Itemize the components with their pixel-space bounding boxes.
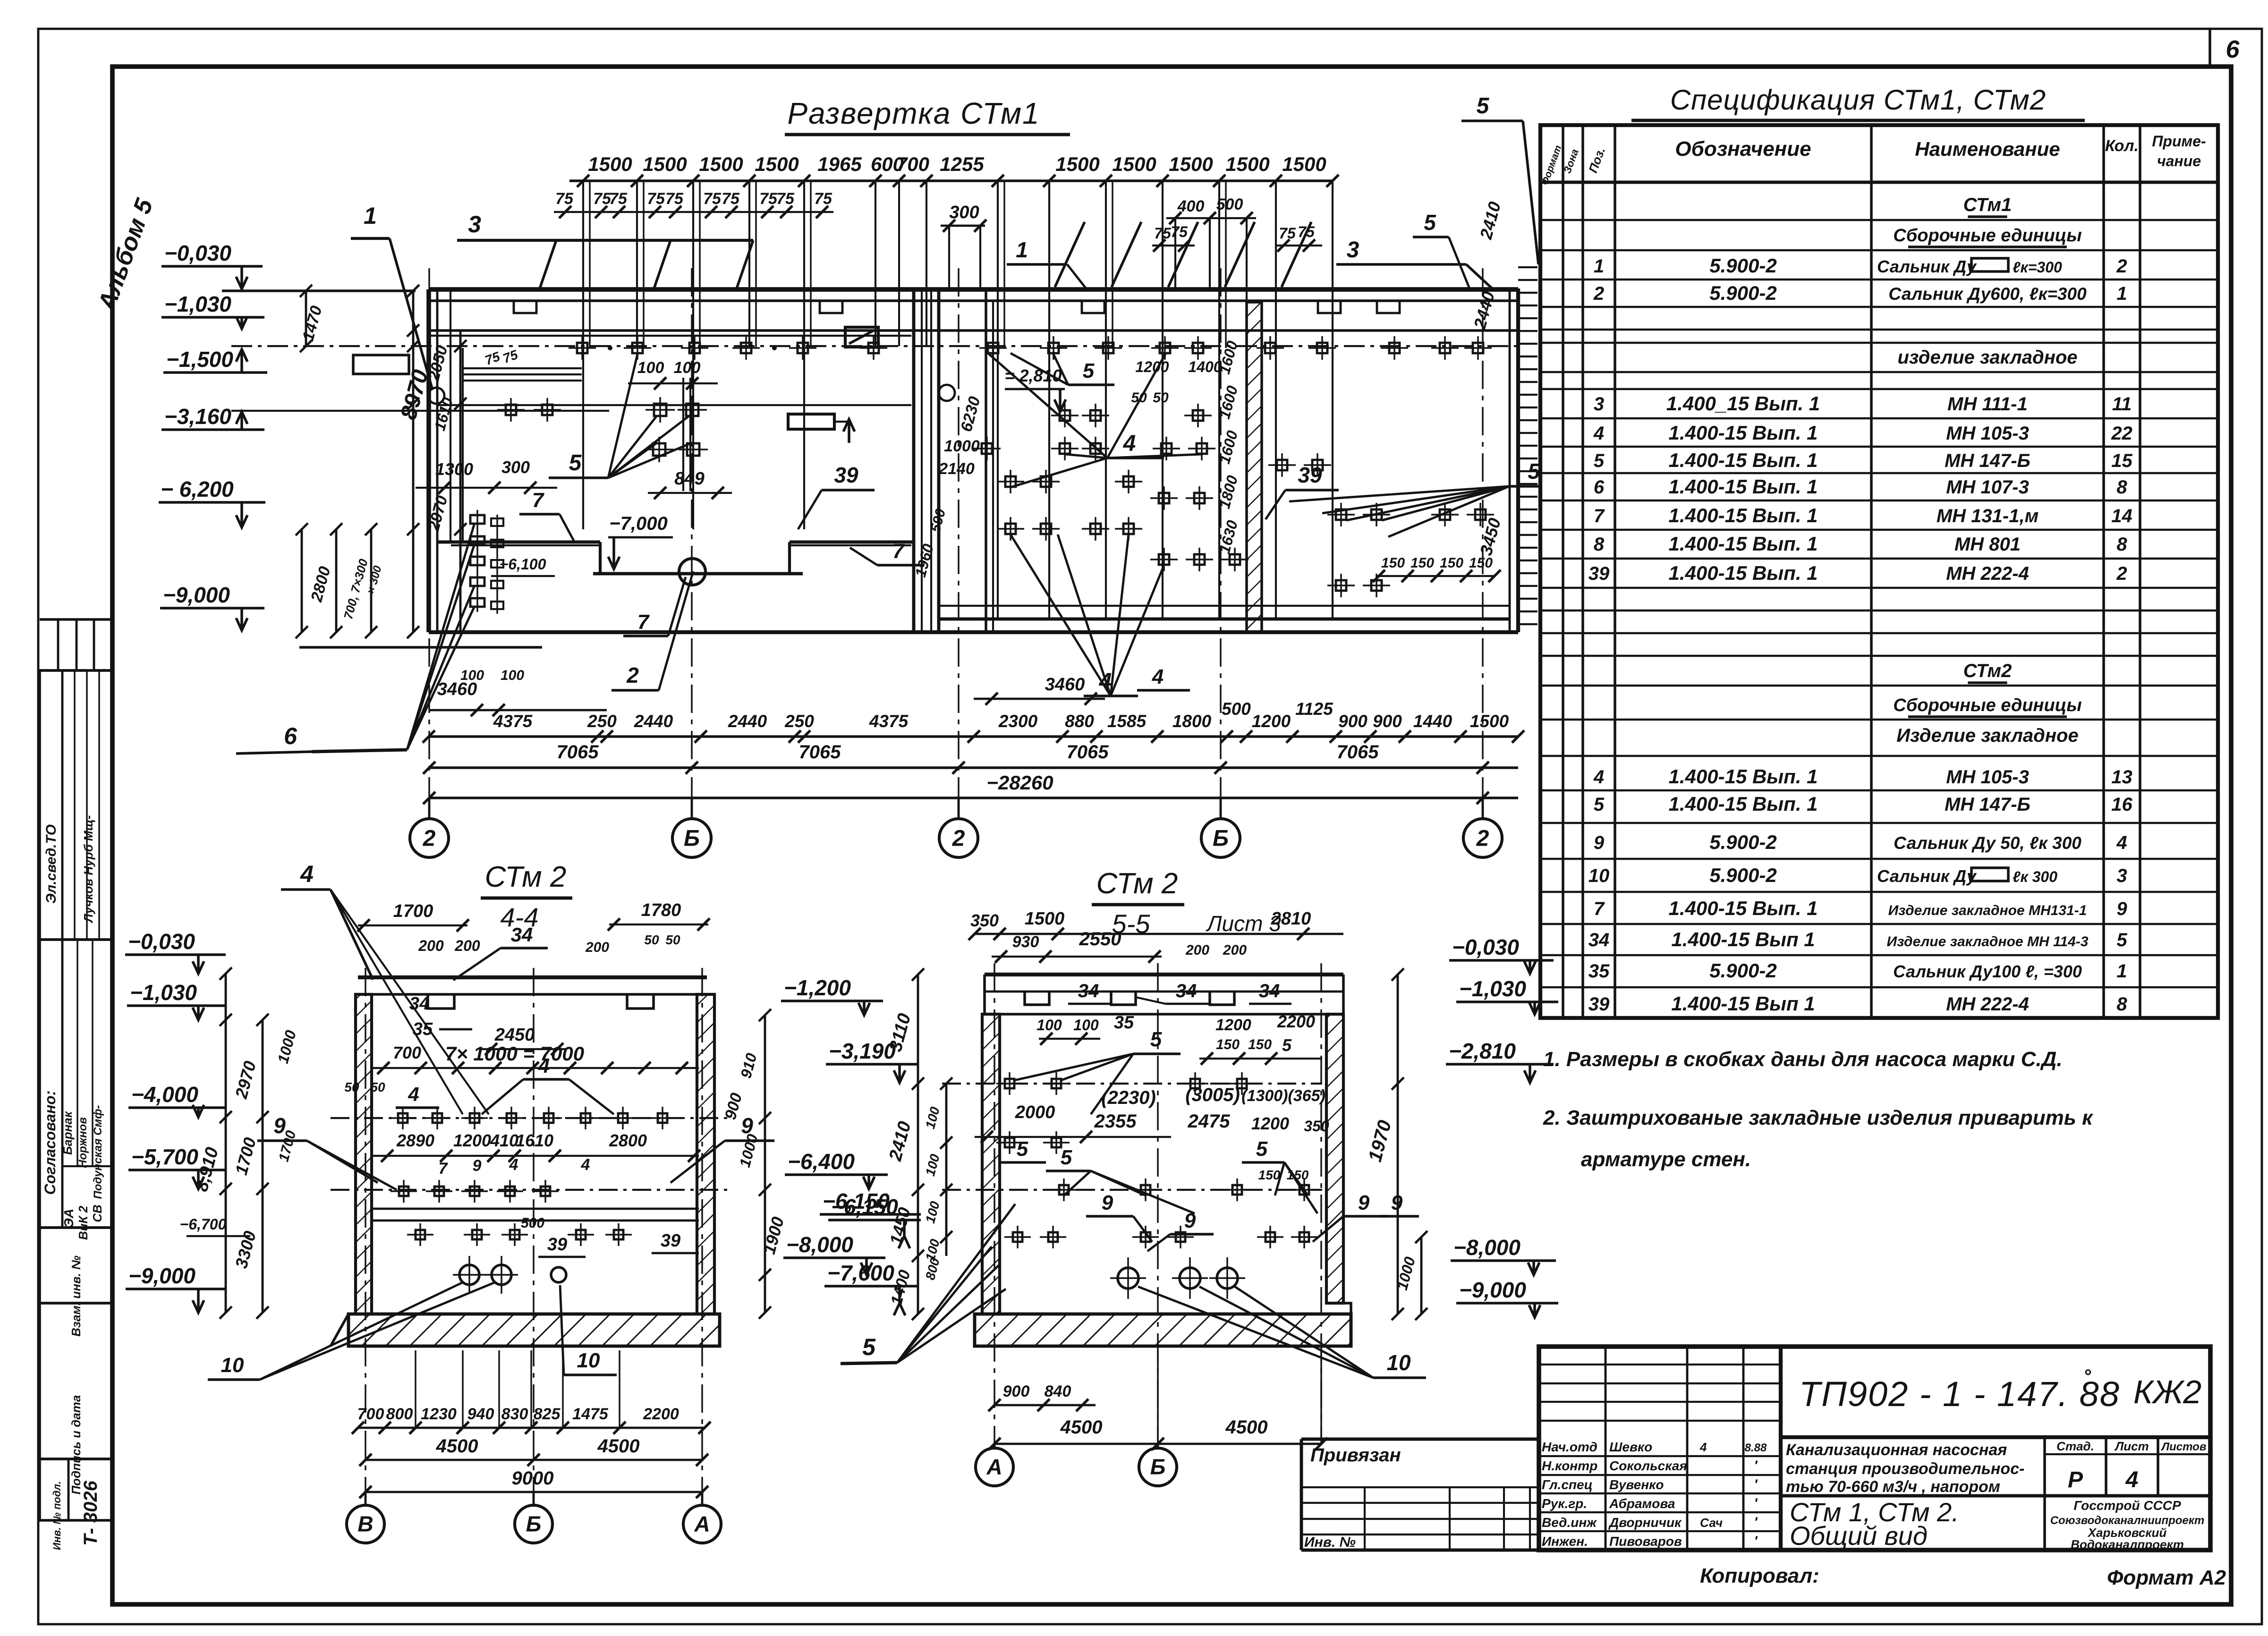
svg-text:410: 410 [490, 1131, 518, 1150]
svg-text:1.400_15 Вып. 1: 1.400_15 Вып. 1 [1666, 392, 1820, 415]
bottom dim row 28260 [429, 797, 1518, 799]
svg-text:39: 39 [834, 463, 858, 487]
svg-text:2000: 2000 [1015, 1102, 1055, 1122]
left stamp upper grid [40, 618, 112, 621]
right wall [1509, 288, 1511, 632]
svg-text:1500: 1500 [643, 153, 687, 175]
svg-text:1200: 1200 [453, 1131, 491, 1150]
svg-text:9: 9 [1184, 1209, 1196, 1232]
svg-text:50: 50 [344, 1080, 359, 1094]
svg-text:75: 75 [1279, 225, 1296, 242]
title block sheet name [1781, 1494, 2210, 1498]
svg-text:5: 5 [1282, 1035, 1292, 1055]
svg-text:2200: 2200 [1277, 1012, 1315, 1031]
svg-text:МН 222-4: МН 222-4 [1946, 563, 2029, 584]
svg-text:−8,000: −8,000 [786, 1232, 853, 1257]
equipment rect right of pit [788, 414, 834, 429]
svg-text:2. Заштрихованые закладн: 2. Заштрихованые закладные изделия прива… [1543, 1106, 2094, 1129]
svg-text:Спецификация СТм1, СТм2: Спецификация СТм1, СТм2 [1670, 84, 2046, 116]
svg-text:5.900-2: 5.900-2 [1709, 254, 1776, 277]
svg-text:8: 8 [1594, 534, 1605, 555]
svg-text:100: 100 [637, 359, 664, 377]
svg-text:900: 900 [1373, 712, 1402, 731]
svg-text:−7,000: −7,000 [609, 513, 667, 534]
svg-text:А: А [986, 1455, 1002, 1479]
svg-text:': ' [1754, 1515, 1758, 1530]
bottom dim row detail [429, 735, 1518, 738]
svg-text:5: 5 [862, 1334, 876, 1360]
svg-text:1: 1 [1594, 256, 1604, 277]
svg-text:1: 1 [1016, 237, 1028, 262]
svg-text:Лучков Нурб Мщ-: Лучков Нурб Мщ- [81, 815, 95, 924]
svg-text:4: 4 [2116, 832, 2127, 853]
svg-text:(2230): (2230) [1101, 1087, 1156, 1108]
svg-text:': ' [1754, 1458, 1758, 1474]
svg-text:1.400-15 Вып. 1: 1.400-15 Вып. 1 [1668, 449, 1818, 471]
svg-text:10: 10 [1588, 865, 1610, 886]
svg-text:200: 200 [1185, 942, 1209, 958]
svg-text:ВиК 2: ВиК 2 [76, 1205, 90, 1240]
roof slant joints right [1055, 222, 1085, 287]
left stamp block podpis i data [40, 1303, 112, 1459]
svg-text:Сальник Ду: Сальник Ду [1877, 866, 1977, 886]
svg-text:11: 11 [2112, 394, 2132, 415]
svg-text:Канализационная насосная: Канализационная насосная [1786, 1441, 2007, 1459]
5-5 left wall hatched [982, 1014, 1000, 1314]
svg-text:Пивоваров: Пивоваров [1609, 1534, 1682, 1549]
svg-text:2: 2 [1593, 283, 1604, 304]
5-5 plates third row [1059, 1185, 1069, 1195]
svg-text:1500: 1500 [1025, 909, 1065, 929]
svg-text:1585: 1585 [1107, 712, 1147, 731]
svg-text:Б: Б [684, 826, 700, 851]
svg-text:1500: 1500 [699, 153, 743, 175]
svg-text:Копировал:: Копировал: [1700, 1564, 1819, 1587]
hatch opening left [353, 355, 409, 374]
svg-text:5: 5 [1594, 794, 1605, 815]
small rect detail with diagonal [845, 327, 878, 347]
4-4 plates row bottom [416, 1230, 425, 1239]
svg-text:Нач.отд: Нач.отд [1542, 1440, 1597, 1454]
svg-text:−4,000: −4,000 [131, 1082, 198, 1107]
svg-text:Лист: Лист [2114, 1439, 2149, 1453]
svg-text:Сач: Сач [1700, 1516, 1723, 1530]
svg-text:16: 16 [2111, 794, 2132, 815]
privyazan stamp [1301, 1438, 1539, 1441]
svg-text:1: 1 [364, 203, 377, 229]
svg-text:5: 5 [1477, 93, 1490, 119]
4-4 riser lines to dims [415, 1350, 416, 1428]
left half floor -6.200 [437, 541, 600, 544]
svg-text:2: 2 [952, 826, 965, 851]
svg-text:Инв. № подл.: Инв. № подл. [51, 1481, 63, 1550]
svg-text:500: 500 [1216, 195, 1243, 213]
svg-text:100: 100 [1073, 1017, 1099, 1034]
ceiling line [429, 329, 1518, 332]
svg-text:75: 75 [609, 190, 628, 208]
svg-text:МН 105-3: МН 105-3 [1946, 767, 2029, 788]
svg-text:75: 75 [722, 190, 740, 208]
svg-text:200: 200 [1223, 942, 1247, 958]
svg-text:А: А [694, 1512, 710, 1536]
svg-text:2300: 2300 [998, 712, 1038, 731]
svg-text:7: 7 [1594, 506, 1605, 526]
svg-text:2: 2 [423, 826, 436, 851]
svg-text:1500: 1500 [1225, 153, 1269, 175]
4-4 plates row upper [398, 1113, 408, 1123]
4-4 top slab [358, 975, 707, 979]
svg-text:Сборочные единицы: Сборочные единицы [1893, 226, 2081, 246]
svg-text:1200: 1200 [1135, 358, 1169, 375]
svg-text:Барнак: Барнак [60, 1110, 75, 1155]
svg-text:−1,030: −1,030 [164, 292, 231, 316]
svg-text:4: 4 [1123, 431, 1136, 456]
svg-text:СТм1: СТм1 [1963, 195, 2012, 215]
svg-text:39: 39 [661, 1231, 680, 1251]
svg-text:1965: 1965 [817, 153, 862, 175]
svg-text:−1,030: −1,030 [130, 980, 197, 1005]
pipe circle -7.000 [679, 559, 705, 585]
wall axis dash-dot [231, 345, 1518, 347]
svg-text:': ' [1754, 1534, 1758, 1549]
column axis bubbles [428, 798, 431, 818]
wall level symbol [428, 388, 444, 404]
4-4 lower lines [373, 1208, 699, 1210]
column centerlines [428, 268, 430, 798]
svg-text:1255: 1255 [940, 153, 984, 175]
foundation bottom [429, 630, 1518, 634]
4-4 vertical axes [365, 968, 366, 1492]
svg-text:Подунская Смф-: Подунская Смф- [92, 1105, 104, 1199]
svg-text:2890: 2890 [396, 1131, 434, 1150]
svg-text:2140: 2140 [938, 460, 975, 478]
svg-text:1. Размеры в скобках даны: 1. Размеры в скобках даны для насоса мар… [1543, 1048, 2063, 1071]
svg-text:9: 9 [1594, 832, 1605, 853]
svg-text:8: 8 [2116, 534, 2127, 555]
svg-text:Вувенко: Вувенко [1609, 1477, 1664, 1492]
svg-text:75: 75 [776, 190, 795, 208]
left stamp block inv no podl [40, 1459, 112, 1520]
svg-text:−1,030: −1,030 [1459, 976, 1526, 1001]
svg-text:2800: 2800 [609, 1131, 647, 1150]
svg-text:1.400-15 Вып. 1: 1.400-15 Вып. 1 [1668, 504, 1818, 526]
svg-text:5: 5 [1256, 1137, 1268, 1161]
svg-text:6: 6 [284, 723, 297, 749]
svg-text:Обозначение: Обозначение [1675, 137, 1811, 161]
svg-text:Наименование: Наименование [1915, 138, 2060, 160]
svg-text:Привязан: Привязан [1310, 1445, 1401, 1466]
svg-text:4: 4 [1593, 423, 1604, 444]
svg-text:700: 700 [357, 1405, 384, 1423]
svg-text:4375: 4375 [493, 712, 533, 731]
foundation dim chain [301, 529, 303, 632]
svg-text:1200: 1200 [1252, 712, 1291, 731]
title block signature rows [1539, 1455, 1781, 1457]
svg-text:2475: 2475 [1188, 1111, 1231, 1132]
svg-text:МН 222-4: МН 222-4 [1946, 994, 2029, 1015]
svg-text:75: 75 [1154, 225, 1172, 242]
inner hatched wall right half [1247, 302, 1262, 632]
bottom dim row 7065 [429, 766, 1518, 769]
svg-text:Госстрой СССР: Госстрой СССР [2073, 1498, 2181, 1513]
svg-text:22: 22 [2111, 423, 2132, 444]
5-5 right wall hatched [1326, 1014, 1343, 1303]
svg-text:5.900-2: 5.900-2 [1709, 864, 1776, 886]
svg-text:4: 4 [1152, 665, 1164, 688]
svg-text:75: 75 [665, 190, 684, 208]
svg-text:5.900-2: 5.900-2 [1709, 959, 1776, 982]
svg-text:−3,190: −3,190 [829, 1039, 896, 1063]
svg-text:7: 7 [439, 1160, 449, 1178]
svg-text:3: 3 [468, 211, 481, 237]
svg-text:Н.контр: Н.контр [1542, 1458, 1597, 1473]
dims 100 100 cluster [682, 378, 684, 491]
svg-text:5: 5 [2116, 930, 2127, 950]
svg-text:50: 50 [644, 932, 659, 947]
svg-text:2440: 2440 [634, 712, 673, 731]
svg-text:150: 150 [1287, 1168, 1309, 1182]
svg-text:2: 2 [2116, 563, 2127, 584]
svg-text:1780: 1780 [641, 900, 681, 920]
svg-text:2: 2 [626, 663, 639, 687]
5-5 bottom bubbles [994, 1444, 996, 1449]
4-4 plates row lower [399, 1187, 408, 1196]
4-4 right vertical chain [764, 1015, 766, 1313]
svg-text:830: 830 [501, 1405, 528, 1423]
svg-text:1700: 1700 [393, 901, 433, 921]
svg-text:4500: 4500 [436, 1436, 478, 1457]
svg-text:500: 500 [1222, 699, 1251, 719]
svg-text:350: 350 [1304, 1118, 1329, 1135]
svg-text:1.400-15 Вып. 1: 1.400-15 Вып. 1 [1668, 533, 1818, 555]
4-4 pipes [459, 1265, 479, 1285]
level line -3.160 inside [231, 410, 609, 412]
svg-text:1.400-15 Вып. 1: 1.400-15 Вып. 1 [1668, 765, 1818, 788]
5-5 vertical axes [994, 963, 995, 1444]
svg-text:1.400-15 Вып. 1: 1.400-15 Вып. 1 [1668, 562, 1818, 584]
svg-text:6: 6 [2226, 36, 2240, 63]
svg-text:2450: 2450 [494, 1025, 535, 1045]
svg-text:изделие закладное: изделие закладное [1897, 347, 2077, 368]
svg-text:34: 34 [511, 924, 533, 946]
svg-text:4: 4 [509, 1156, 518, 1174]
svg-text:7: 7 [532, 489, 545, 512]
svg-text:°: ° [2083, 1366, 2091, 1387]
svg-text:Согласовано:: Согласовано: [42, 1090, 59, 1195]
4-4 left vertical chain [225, 974, 227, 1313]
svg-text:4: 4 [538, 1054, 550, 1077]
svg-text:150: 150 [1248, 1037, 1272, 1052]
svg-text:250: 250 [587, 712, 617, 731]
svg-text:−6,700: −6,700 [180, 1216, 227, 1233]
svg-text:1500: 1500 [1169, 153, 1213, 175]
svg-text:': ' [1754, 1477, 1758, 1492]
svg-text:50: 50 [1131, 390, 1147, 406]
svg-text:4500: 4500 [1225, 1417, 1268, 1438]
svg-text:14: 14 [2111, 506, 2132, 526]
svg-text:КЖ2: КЖ2 [2133, 1373, 2201, 1410]
svg-text:7: 7 [1594, 899, 1605, 919]
svg-text:Листов: Листов [2161, 1441, 2207, 1453]
svg-text:250: 250 [784, 712, 814, 731]
svg-text:4: 4 [300, 861, 314, 887]
svg-text:15: 15 [2111, 450, 2132, 471]
svg-text:9: 9 [1102, 1191, 1113, 1214]
svg-text:2355: 2355 [1094, 1111, 1137, 1132]
spec table grid [1540, 125, 2218, 1018]
5-5 bottom slab hatched [975, 1314, 1351, 1346]
svg-text:1000: 1000 [944, 437, 980, 455]
svg-text:Б: Б [526, 1512, 542, 1536]
svg-text:930: 930 [1012, 933, 1039, 951]
svg-text:Б: Б [1150, 1455, 1166, 1479]
svg-text:1500: 1500 [588, 153, 632, 175]
svg-text:150: 150 [1469, 555, 1493, 571]
svg-text:Шевко: Шевко [1609, 1440, 1652, 1454]
building roof band [429, 287, 1518, 292]
svg-text:(1300)(365): (1300)(365) [1241, 1087, 1325, 1105]
svg-text:880: 880 [1065, 712, 1094, 731]
svg-text:1.400-15 Вып. 1: 1.400-15 Вып. 1 [1668, 897, 1818, 919]
5-5 plates second row [1005, 1138, 1014, 1147]
5-5 right rotated dims [1397, 975, 1399, 1314]
title block stage cells [2043, 1437, 2046, 1550]
svg-text:5: 5 [1083, 359, 1095, 382]
svg-text:300: 300 [501, 458, 530, 477]
svg-text:Изделие закладное: Изделие закладное [1896, 725, 2078, 746]
svg-text:2: 2 [2116, 256, 2127, 277]
5-5 axis -2.810 [942, 1083, 1322, 1085]
svg-text:35: 35 [413, 1019, 433, 1039]
left stamp block vzam inv [40, 1228, 112, 1303]
embedded plates right half [982, 443, 992, 454]
svg-text:8.88: 8.88 [1745, 1441, 1767, 1454]
svg-text:−3,160: −3,160 [164, 404, 231, 429]
svg-text:900: 900 [1338, 712, 1368, 731]
svg-text:Дворничик: Дворничик [1608, 1515, 1682, 1530]
plates column at outer left wall [470, 515, 484, 524]
svg-text:−0,030: −0,030 [1452, 935, 1519, 959]
left vertical dim chain [412, 291, 415, 632]
svg-text:3: 3 [1347, 237, 1359, 263]
title block main frame [1539, 1347, 2210, 1550]
embedded plates right half extra [1060, 410, 1070, 421]
top dimension row 1500s [569, 179, 1333, 182]
svg-text:2: 2 [1476, 826, 1489, 851]
svg-text:Сальник Ду 50, ℓк 300: Сальник Ду 50, ℓк 300 [1894, 833, 2081, 853]
svg-text:5: 5 [1061, 1146, 1072, 1169]
5-5 left rotated dims [917, 975, 919, 1314]
svg-text:чание: чание [2157, 153, 2201, 170]
svg-text:13: 13 [2111, 767, 2132, 788]
svg-text:(3005): (3005) [1185, 1085, 1240, 1105]
svg-text:39: 39 [1298, 463, 1322, 487]
svg-text:700: 700 [896, 153, 929, 175]
svg-text:Формат А2: Формат А2 [2107, 1566, 2226, 1589]
svg-text:5: 5 [1594, 450, 1605, 471]
svg-text:': ' [1754, 1496, 1758, 1511]
svg-text:150: 150 [1410, 555, 1434, 571]
svg-text:Абрамова: Абрамова [1609, 1496, 1675, 1511]
svg-text:МН 105-3: МН 105-3 [1946, 423, 2029, 444]
svg-text:4: 4 [1699, 1440, 1707, 1454]
svg-text:МН 147-Б: МН 147-Б [1945, 794, 2030, 815]
svg-text:100: 100 [460, 668, 484, 683]
svg-text:8: 8 [2116, 994, 2127, 1015]
svg-text:Подпись и дата: Подпись и дата [69, 1395, 83, 1495]
svg-text:5.900-2: 5.900-2 [1709, 831, 1776, 853]
svg-text:Водоканалпроект: Водоканалпроект [2071, 1537, 2184, 1551]
svg-text:1125: 1125 [1295, 699, 1334, 719]
svg-text:Сальник Ду100 ℓ, =300: Сальник Ду100 ℓ, =300 [1893, 962, 2082, 981]
svg-text:200: 200 [418, 937, 444, 954]
svg-text:−7,600: −7,600 [827, 1261, 894, 1285]
svg-text:1500: 1500 [1470, 712, 1509, 731]
svg-text:34: 34 [1176, 981, 1197, 1001]
svg-text:150: 150 [1216, 1037, 1240, 1052]
svg-text:75: 75 [814, 190, 832, 208]
5-5 pipes bottom [1118, 1268, 1138, 1288]
svg-text:ℓк 300: ℓк 300 [2013, 868, 2057, 885]
svg-text:станция производительнос-: станция производительнос- [1786, 1460, 2024, 1478]
4-4 bottom slab hatched [348, 1314, 720, 1346]
svg-text:Сальник Ду600, ℓк=300: Сальник Ду600, ℓк=300 [1888, 284, 2087, 304]
5-5 plates fourth row [1013, 1232, 1022, 1242]
svg-text:−6,400: −6,400 [788, 1149, 855, 1174]
wall panel joint lines [582, 181, 584, 529]
svg-text:ТП902 - 1 - 147. 88: ТП902 - 1 - 147. 88 [1799, 1374, 2120, 1414]
svg-text:34: 34 [1259, 981, 1280, 1001]
svg-text:МН 131-1,м: МН 131-1,м [1937, 506, 2039, 526]
svg-text:СТм 2: СТм 2 [1096, 867, 1178, 900]
4-4 left wall hatched [356, 994, 372, 1314]
svg-text:−1,500: −1,500 [166, 347, 233, 372]
svg-text:5: 5 [1424, 210, 1436, 235]
svg-text:−9,000: −9,000 [163, 583, 230, 607]
left stamp block authority [40, 670, 112, 940]
svg-text:СТм 2: СТм 2 [485, 861, 567, 893]
left stamp block soglasovano [40, 940, 112, 1228]
svg-text:7065: 7065 [1337, 742, 1379, 763]
svg-text:940: 940 [467, 1405, 494, 1423]
svg-text:4: 4 [408, 1083, 419, 1105]
svg-text:4500: 4500 [1060, 1417, 1103, 1438]
svg-text:1475: 1475 [572, 1405, 609, 1423]
embedded plates along wall axis [577, 343, 587, 353]
svg-text:4375: 4375 [869, 712, 909, 731]
svg-text:−2,810: −2,810 [1449, 1039, 1516, 1063]
svg-text:9000: 9000 [512, 1468, 554, 1489]
svg-text:тью 70-660 м3/ч , напором: тью 70-660 м3/ч , напором [1786, 1478, 2000, 1496]
svg-text:150: 150 [1440, 555, 1463, 571]
svg-text:5: 5 [1150, 1028, 1162, 1051]
svg-text:4: 4 [2125, 1467, 2139, 1492]
svg-text:50: 50 [1153, 390, 1169, 406]
svg-text:10: 10 [577, 1349, 600, 1372]
svg-text:1.400-15 Вып 1: 1.400-15 Вып 1 [1671, 992, 1815, 1015]
svg-text:1500: 1500 [1055, 153, 1099, 175]
svg-text:150: 150 [1258, 1168, 1281, 1182]
4-4 right wall hatched [697, 994, 714, 1314]
svg-text:−0,030: −0,030 [128, 929, 195, 954]
svg-text:4: 4 [1593, 767, 1604, 788]
svg-text:75: 75 [555, 190, 574, 208]
5-5 plates upper row [1005, 1079, 1014, 1088]
svg-text:МН 111-1: МН 111-1 [1947, 394, 2028, 415]
svg-text:34: 34 [1078, 981, 1099, 1001]
svg-text:5: 5 [1017, 1137, 1028, 1161]
svg-text:Инв. №: Инв. № [1304, 1534, 1356, 1550]
